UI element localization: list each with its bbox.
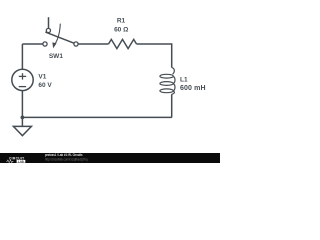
svg-text:LAB: LAB <box>18 159 24 163</box>
svg-text:60 V: 60 V <box>38 82 52 89</box>
svg-text:L1: L1 <box>180 76 188 83</box>
svg-text:SW1: SW1 <box>49 53 63 60</box>
svg-text:V1: V1 <box>38 74 46 81</box>
svg-text:http://circuitlab.com/c/cq8bad: http://circuitlab.com/c/cq8badcj7bq <box>45 158 88 162</box>
svg-text:protoss1 / Lab #4: RL Circuits: protoss1 / Lab #4: RL Circuits <box>45 153 83 157</box>
svg-text:600 mH: 600 mH <box>180 85 206 92</box>
svg-text:R1: R1 <box>117 17 126 24</box>
svg-text:60 Ω: 60 Ω <box>114 27 128 34</box>
